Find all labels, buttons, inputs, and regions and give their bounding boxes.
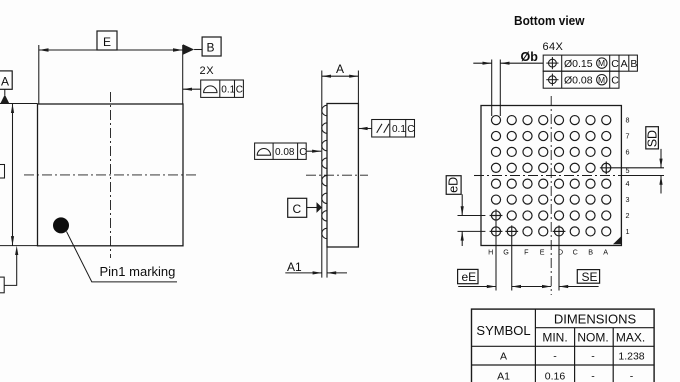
clipped rotated label box (D) at image left edge xyxy=(0,165,5,179)
svg-text:C: C xyxy=(573,247,578,256)
svg-text:0.1: 0.1 xyxy=(392,124,406,135)
crossed ball A5 vertical xyxy=(605,162,607,175)
clipped FCF box sliver xyxy=(0,277,4,293)
arrow A1 left (pointing right) xyxy=(313,271,322,274)
svg-text:Ø0.08: Ø0.08 xyxy=(564,75,593,87)
FCF parallel leader arrow xyxy=(358,128,371,130)
centerline solid extension left xyxy=(474,175,481,177)
dimension A line xyxy=(322,75,359,77)
svg-text:A: A xyxy=(500,350,507,362)
horizontal centerline (side view) xyxy=(306,174,368,176)
svg-text:E: E xyxy=(540,247,545,256)
crossed ball H2 horizontal xyxy=(490,215,503,217)
dimension D extension line top-left xyxy=(0,103,38,105)
Øb tangent extension lines xyxy=(491,60,493,117)
Øb arrows xyxy=(483,62,492,65)
FCF profile 0.08 C box xyxy=(255,143,307,159)
svg-text:G: G xyxy=(503,247,509,256)
svg-text:0.16: 0.16 xyxy=(545,370,566,382)
row numbers right xyxy=(626,116,630,236)
svg-text:2X: 2X xyxy=(200,65,215,77)
arrow E left xyxy=(39,48,49,51)
svg-text:SE: SE xyxy=(582,270,598,284)
svg-text:Øb: Øb xyxy=(521,50,539,64)
dimension A extension line right xyxy=(357,71,359,104)
crossed ball G1 xyxy=(505,230,518,232)
eE/SE middle dimension line xyxy=(512,286,551,288)
package body (side view) xyxy=(327,104,358,248)
eD label box (rotated) xyxy=(446,176,461,195)
crossed ball D1 xyxy=(553,230,566,232)
vertical centerline (top view) xyxy=(110,92,112,258)
datum C box xyxy=(288,198,307,217)
SD arrows xyxy=(660,149,662,168)
Pin1 marking dot xyxy=(53,217,69,233)
svg-text:1.238: 1.238 xyxy=(618,350,644,362)
eE label box xyxy=(458,269,478,283)
horizontal centerline (bottom view) xyxy=(474,175,664,177)
svg-text:-: - xyxy=(591,370,595,382)
FCF position 0.08 box xyxy=(543,71,619,88)
seating plane line xyxy=(321,71,323,278)
eD extension lines from balls H2 H1 xyxy=(458,215,486,217)
centerline solid extension right xyxy=(621,175,664,177)
arrow D bottom xyxy=(11,236,14,246)
svg-text:-: - xyxy=(630,370,634,382)
profile of surface symbol 2 xyxy=(257,149,270,156)
crossed ball H1 xyxy=(490,230,503,232)
pin1 corner triangle (bottom view) xyxy=(613,236,621,244)
svg-text:7: 7 xyxy=(626,131,630,140)
datum B triangle xyxy=(183,44,194,55)
dimension A1 line right xyxy=(327,272,347,274)
leader line Pin1 xyxy=(67,232,178,282)
svg-text:M: M xyxy=(598,75,605,85)
datum A box xyxy=(0,71,12,89)
FCF cell dividers xyxy=(561,55,563,88)
extension line from ball G1 down xyxy=(511,225,513,290)
dimension D line (vertical, left) xyxy=(12,104,14,246)
dimension E extension line right xyxy=(182,45,184,104)
table header texts xyxy=(476,312,636,339)
svg-text:A: A xyxy=(603,247,608,256)
svg-text:F: F xyxy=(524,247,529,256)
svg-text:eE: eE xyxy=(462,270,477,284)
position symbol row1 xyxy=(549,59,557,67)
dimension A1 line left xyxy=(285,272,322,274)
SD extension line (row5) xyxy=(600,167,664,169)
eD dimension arrows xyxy=(461,194,463,215)
svg-text:Ø0.15: Ø0.15 xyxy=(564,58,593,70)
svg-text:A: A xyxy=(336,62,344,76)
dimension E extension line left xyxy=(38,45,40,104)
FCF parallel 0.1 C box xyxy=(372,120,415,138)
svg-text:-: - xyxy=(591,350,595,362)
clipped FCF leader bottom-left: arrow xyxy=(15,246,18,255)
FCF profile 0.1 C box xyxy=(201,80,244,97)
datum A stem xyxy=(4,89,6,95)
datum C triangle xyxy=(317,202,323,213)
svg-text:NOM.: NOM. xyxy=(577,331,608,345)
datum A triangle xyxy=(0,95,9,104)
svg-text:SYMBOL: SYMBOL xyxy=(476,323,530,338)
arrow A left xyxy=(322,75,331,78)
svg-text:A: A xyxy=(621,58,628,70)
FCF profile leader arrow xyxy=(306,150,321,152)
svg-text:8: 8 xyxy=(626,116,630,125)
svg-text:5: 5 xyxy=(626,166,630,175)
svg-text:A1: A1 xyxy=(287,260,302,274)
FCF leader arrow to right extension line xyxy=(183,88,201,90)
svg-text:B: B xyxy=(207,41,215,55)
svg-text:-: - xyxy=(553,350,557,362)
svg-text:C: C xyxy=(611,75,619,87)
svg-text:E: E xyxy=(103,35,111,49)
SD label box (rotated) xyxy=(646,127,659,149)
balls (side view bumps) xyxy=(322,105,327,238)
svg-text:6: 6 xyxy=(626,147,630,156)
SE label box xyxy=(577,270,599,284)
dimension A1 extension line (body edge) xyxy=(326,247,328,278)
extension line from ball H1 down xyxy=(495,209,497,290)
dimension E line xyxy=(39,49,183,51)
svg-text:64X: 64X xyxy=(543,41,564,53)
FCF position 0.15 box xyxy=(543,55,637,71)
svg-text:eD: eD xyxy=(446,177,460,193)
datum C leader xyxy=(307,207,317,209)
svg-text:Pin1 marking: Pin1 marking xyxy=(100,264,176,279)
svg-text:MAX.: MAX. xyxy=(616,331,645,345)
Øb dimension line xyxy=(473,62,491,64)
package outline (bottom view) xyxy=(481,106,621,246)
arrow E right xyxy=(173,48,183,51)
svg-text:H: H xyxy=(488,247,493,256)
svg-text:A: A xyxy=(1,75,9,89)
svg-text:SD: SD xyxy=(646,130,660,147)
svg-text:C: C xyxy=(293,202,302,216)
vertical centerline (bottom view) xyxy=(550,96,552,295)
package body outline (top view) xyxy=(38,104,184,246)
svg-text:C: C xyxy=(407,124,414,135)
svg-text:4: 4 xyxy=(626,179,630,188)
datum B leader xyxy=(194,49,202,51)
arrow A1 right (pointing left) xyxy=(327,271,336,274)
svg-text:3: 3 xyxy=(626,195,630,204)
horizontal centerline (top view) xyxy=(24,174,196,176)
svg-text:1: 1 xyxy=(626,227,630,236)
svg-text:B: B xyxy=(630,58,637,70)
svg-text:A1: A1 xyxy=(497,370,510,382)
column letters bottom xyxy=(488,247,608,256)
svg-text:MIN.: MIN. xyxy=(542,331,567,345)
table data rows xyxy=(497,350,645,382)
ball grid 8x8 xyxy=(490,116,611,236)
ball grid 8x8 xyxy=(491,116,500,125)
svg-text:C: C xyxy=(236,85,243,96)
dimension D extension line bottom-left xyxy=(0,245,38,247)
SE dimension line right xyxy=(559,286,599,288)
svg-text:0.08: 0.08 xyxy=(275,147,295,158)
clipped FCF leader lines xyxy=(4,254,17,285)
svg-text:DIMENSIONS: DIMENSIONS xyxy=(554,312,637,327)
svg-text:2: 2 xyxy=(626,211,630,220)
profile of surface symbol xyxy=(204,86,217,93)
dimensions table frame xyxy=(472,309,655,382)
datum B box xyxy=(202,37,221,56)
label box E xyxy=(97,31,117,50)
svg-text:C: C xyxy=(611,58,619,70)
parallelism symbol xyxy=(377,124,389,133)
position symbol row2 xyxy=(549,76,557,84)
svg-text:C: C xyxy=(299,147,306,158)
svg-text:0.1: 0.1 xyxy=(221,85,235,96)
arrow A right xyxy=(349,75,358,78)
svg-text:Bottom view: Bottom view xyxy=(514,13,585,28)
arrow D top xyxy=(11,104,14,114)
svg-text:M: M xyxy=(598,58,605,68)
extension line from ball D1 down xyxy=(558,225,560,290)
svg-text:B: B xyxy=(588,247,593,256)
eE dimension line left xyxy=(458,286,496,288)
